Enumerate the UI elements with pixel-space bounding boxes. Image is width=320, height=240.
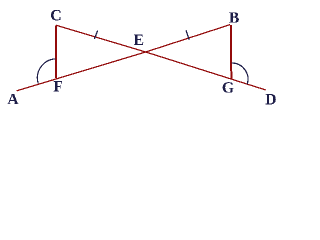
angle arc at G (231, 63, 248, 84)
tick mark on EB (186, 30, 189, 40)
angle arc at F (37, 59, 55, 83)
segment B-G (230, 25, 232, 79)
label F (54, 81, 63, 91)
label B (229, 12, 239, 22)
label G (223, 82, 234, 93)
line C-E-G-D (56, 25, 266, 90)
segment C-F (55, 25, 57, 78)
label A (7, 94, 18, 104)
label D (265, 94, 275, 104)
line A-F-E-B (17, 25, 231, 91)
tick mark on CE (95, 31, 98, 39)
label E (134, 35, 143, 45)
label C (51, 10, 60, 21)
